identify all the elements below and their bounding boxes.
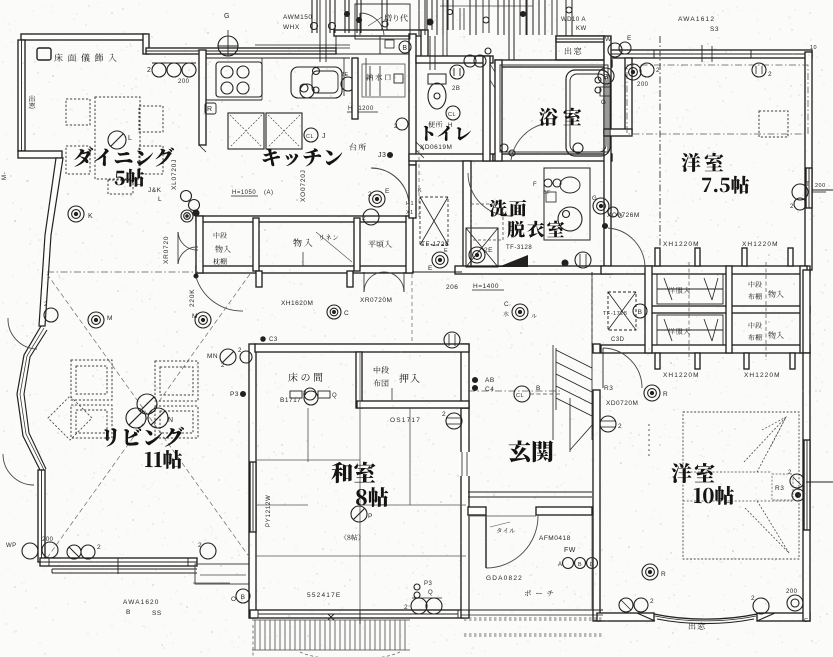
label 10jo	[694, 486, 734, 505]
wall kitchen-dining divider	[199, 50, 206, 145]
svg-text:XD0619M: XD0619M	[420, 144, 452, 151]
wall bath north	[495, 60, 612, 67]
porch outline	[461, 609, 603, 611]
svg-text:B: B	[578, 562, 582, 568]
closet block verticals	[645, 266, 652, 353]
bed7 small dashed box	[759, 111, 788, 137]
bath door arc	[511, 123, 548, 160]
svg-text:200: 200	[815, 183, 826, 189]
svg-text:R3: R3	[604, 385, 613, 392]
engawa deck	[252, 620, 410, 650]
wall utility north	[334, 30, 424, 36]
table circles living	[137, 394, 157, 414]
wall living south window	[40, 558, 197, 566]
front door leaf	[485, 515, 487, 568]
svg-text:2: 2	[442, 411, 446, 418]
marker B bath wall	[598, 68, 614, 84]
label tairu	[497, 528, 515, 533]
svg-text:C: C	[504, 301, 509, 308]
svg-text:R3: R3	[775, 485, 784, 492]
washroom dashed box	[471, 204, 503, 240]
label 11jo	[145, 450, 182, 469]
closet A doors	[178, 232, 198, 250]
label toilet	[424, 126, 471, 141]
svg-text:P3: P3	[230, 391, 239, 398]
svg-text:2: 2	[147, 67, 151, 74]
tatami lines	[307, 408, 309, 462]
window dining west	[18, 40, 25, 151]
svg-text:R: R	[661, 571, 666, 578]
svg-text:G: G	[618, 214, 623, 220]
svg-text:K: K	[88, 213, 93, 220]
living fixtures row	[44, 308, 58, 322]
wall west mid	[39, 158, 63, 326]
svg-text:WHX: WHX	[283, 24, 300, 31]
genkan fixtures AB C4	[473, 378, 478, 383]
svg-text:2: 2	[768, 71, 772, 78]
closet block top	[601, 266, 810, 274]
wall bed10 west	[593, 344, 600, 353]
wall bed10 south	[597, 613, 654, 621]
svg-text:H=1050: H=1050	[232, 190, 256, 196]
label demado bath	[565, 47, 581, 54]
triangle mat	[498, 255, 528, 267]
wall washroom west	[463, 161, 471, 272]
svg-text:Q: Q	[332, 393, 337, 399]
washroom door arc	[468, 173, 511, 216]
svg-text:2: 2	[751, 595, 755, 602]
svg-text:552417E: 552417E	[307, 592, 341, 599]
svg-text:2: 2	[303, 391, 307, 397]
svg-text:B: B	[603, 74, 608, 81]
label benjo	[428, 121, 442, 128]
svg-text:2E: 2E	[341, 72, 349, 78]
label bath	[539, 108, 581, 126]
wall outer east upper	[805, 52, 812, 270]
right edge fixture 200	[792, 184, 808, 200]
fixtures ABD porch	[563, 558, 574, 569]
svg-text:CL: CL	[516, 393, 524, 399]
dining-living door arc	[196, 277, 243, 311]
label closetA	[214, 232, 227, 238]
svg-text:E: E	[385, 188, 390, 195]
svg-text:AWA1612: AWA1612	[678, 16, 715, 23]
hall shaft box	[420, 197, 448, 245]
label demado bed10	[689, 622, 705, 629]
label tokonoma	[288, 373, 322, 382]
toilet duct hatch	[416, 150, 424, 158]
toilet window fixture	[464, 55, 476, 67]
stair diagonals	[556, 350, 592, 368]
label oshiire	[374, 366, 389, 373]
kitchen counter edge	[206, 99, 262, 101]
dashed diamond rug	[48, 396, 92, 440]
katteguchi step rect	[355, 4, 410, 39]
fixture CL toilet	[446, 106, 460, 120]
svg-text:2: 2	[656, 68, 660, 74]
wall genkan west	[461, 408, 469, 618]
svg-text:GDA0822: GDA0822	[486, 575, 523, 582]
label genkan	[509, 440, 553, 462]
front door arc	[486, 515, 538, 568]
svg-text:XH1220M: XH1220M	[663, 241, 700, 248]
closet block bottom	[601, 345, 810, 353]
svg-text:P3: P3	[424, 581, 433, 587]
wall bath west	[495, 60, 502, 161]
label daidokoro	[350, 143, 367, 150]
svg-text:AB: AB	[485, 377, 495, 384]
svg-text:P: P	[368, 513, 373, 520]
svg-text:206: 206	[446, 284, 458, 291]
svg-text:XD0720M: XD0720M	[606, 400, 638, 407]
fixture P washitsu	[351, 506, 367, 522]
svg-text:2: 2	[362, 215, 366, 222]
label senmen	[489, 200, 526, 217]
ceiling dashdot genkan	[468, 390, 560, 392]
bed7 door arc	[608, 228, 645, 268]
wall bed7 west upper	[625, 58, 632, 132]
hall dashed line	[418, 150, 420, 218]
wall bath south	[493, 154, 612, 161]
svg-text:C3: C3	[269, 337, 278, 343]
toilet door arc	[371, 168, 409, 206]
label 8jo	[356, 487, 388, 507]
svg-text:2: 2	[368, 191, 372, 198]
terrace edge below living	[52, 568, 197, 570]
label bed7	[682, 153, 724, 172]
svg-text:2B: 2B	[452, 86, 460, 92]
kitchen island boxes	[228, 113, 264, 149]
svg-text:KW: KW	[576, 26, 587, 32]
terrace step	[195, 564, 250, 584]
closet block mid	[649, 306, 810, 313]
right arrow bed7	[812, 189, 833, 191]
genkan entrance wall	[468, 507, 486, 515]
svg-text:OS1717: OS1717	[390, 417, 421, 424]
label 7.5jo	[702, 176, 749, 194]
stair area walls	[552, 345, 554, 440]
corridor lines	[412, 271, 462, 273]
label porch	[525, 590, 553, 597]
closet C doors	[364, 272, 384, 292]
svg-text:10: 10	[810, 45, 817, 51]
wall outer east mid	[803, 270, 810, 353]
bed dashed	[683, 412, 799, 559]
wall oshiire east	[461, 344, 469, 408]
washing machine	[466, 228, 498, 267]
svg-text:AFM0418: AFM0418	[539, 535, 571, 542]
bay side walls bed10	[637, 613, 655, 621]
storage label box NW	[37, 48, 51, 60]
sofa dashed right	[155, 361, 198, 401]
label hiraire	[368, 240, 391, 247]
label kitchen	[263, 148, 343, 166]
svg-text:FW: FW	[564, 547, 576, 554]
label bed10	[672, 463, 715, 483]
washroom counter	[544, 168, 590, 240]
kitchen counter lines	[206, 57, 350, 59]
svg-text:E: E	[444, 248, 448, 254]
fixture K dining	[68, 206, 84, 222]
toilet fixture 11	[450, 65, 464, 79]
bed7 wall tick	[750, 50, 752, 58]
svg-text:2: 2	[394, 124, 398, 130]
svg-text:2: 2	[618, 423, 622, 430]
fixture C hall	[327, 305, 341, 319]
svg-text:XH1220M: XH1220M	[663, 372, 700, 379]
closet right row2 labels	[749, 322, 762, 328]
fixture 2 left	[600, 416, 616, 432]
door arc west lower	[3, 454, 34, 485]
bed10 door arc	[603, 348, 642, 388]
svg-text:H=1400: H=1400	[473, 283, 499, 290]
pipe valve dots	[311, 23, 318, 30]
svg-text:M-: M-	[2, 171, 8, 180]
svg-text:2: 2	[650, 598, 654, 605]
bed7 G fixtures	[593, 198, 609, 214]
svg-text:R: R	[207, 106, 213, 113]
bay window bed10	[654, 614, 757, 619]
bottom wall fixtures	[22, 543, 38, 559]
svg-text:X1: X1	[406, 210, 414, 216]
door arc west upper	[8, 318, 37, 349]
wall toilet east	[483, 56, 490, 161]
svg-text:WP: WP	[6, 543, 17, 549]
tokonoma symbol	[290, 391, 302, 398]
wall toilet south	[409, 154, 493, 161]
svg-text:200: 200	[178, 79, 190, 85]
svg-text:(A): (A)	[264, 190, 274, 196]
svg-text:AWM150: AWM150	[283, 14, 313, 21]
engawa x mark	[328, 614, 334, 620]
svg-text:XO0726M: XO0726M	[607, 212, 640, 219]
wall outer east lower	[803, 353, 810, 621]
sink block	[291, 67, 342, 98]
svg-text:TF-3128: TF-3128	[506, 245, 532, 251]
closet center dashlines	[688, 262, 690, 360]
fixture washitsu on wall	[444, 332, 460, 348]
genkan entry sidelines	[468, 515, 470, 610]
svg-text:2: 2	[404, 604, 408, 611]
washitsu engawa dashed arc	[300, 652, 400, 657]
svg-text:H1: H1	[406, 201, 414, 207]
svg-text:XH1220M: XH1220M	[742, 241, 779, 248]
svg-text:E: E	[428, 265, 433, 272]
washitsu south ticks	[257, 610, 259, 618]
closet row top wall	[196, 216, 412, 222]
bath fixtures W E	[608, 43, 622, 57]
fixture 2E kitchen	[369, 191, 385, 207]
svg-text:G: G	[601, 100, 606, 106]
svg-text:XR0720: XR0720	[163, 236, 170, 264]
porch steps	[464, 617, 602, 619]
label living	[104, 427, 184, 447]
svg-text:2: 2	[198, 542, 202, 549]
svg-text:XR0720M: XR0720M	[360, 297, 392, 304]
svg-text:C4: C4	[485, 386, 494, 393]
svg-text:B: B	[638, 309, 643, 316]
genkan upper dash	[411, 274, 413, 344]
svg-text:XH1620M: XH1620M	[281, 300, 313, 307]
wall bath east	[604, 36, 611, 132]
pipes into bath	[508, 0, 510, 60]
living fixtures bottom	[95, 388, 97, 390]
closet hanger row1	[657, 274, 723, 304]
label yukashita	[54, 53, 116, 61]
closet right row1 labels	[749, 281, 762, 287]
wall katte divider	[352, 58, 358, 119]
bed10 south ticks	[653, 613, 655, 621]
shaft TF-1728	[608, 292, 636, 330]
wall bed7 north	[609, 50, 812, 58]
svg-text:220K: 220K	[189, 289, 196, 307]
wall utility step east	[421, 30, 428, 61]
genkan step lines	[469, 435, 560, 437]
wall washitsu south	[250, 610, 466, 618]
fixture near wall dining2	[363, 209, 379, 225]
svg-text:G: G	[592, 196, 597, 202]
wall circles north kitchen	[152, 63, 166, 77]
fixture CL J kitchen	[304, 128, 318, 142]
svg-text:N: N	[168, 417, 174, 424]
svg-text:CL: CL	[306, 134, 314, 140]
bed10 bottom fixtures	[619, 598, 633, 612]
closet row verticals	[196, 216, 203, 273]
wall washroom south	[455, 266, 612, 274]
svg-text:TF-1728: TF-1728	[603, 311, 627, 317]
svg-text:SS: SS	[152, 610, 162, 617]
svg-text:2E: 2E	[484, 247, 493, 254]
closet door stubs	[256, 271, 262, 287]
bath taps	[595, 77, 601, 83]
wall bay bottom west	[18, 151, 62, 158]
living window ticks	[48, 558, 50, 566]
closet stubs	[655, 248, 660, 266]
wall washroom east	[604, 132, 611, 272]
label 5jo	[115, 169, 145, 187]
svg-text:BF: BF	[543, 190, 551, 196]
svg-text:K: K	[418, 188, 422, 194]
wall washitsu west	[249, 344, 256, 618]
svg-text:E: E	[627, 35, 632, 42]
bed7 fixtures west	[625, 64, 641, 80]
utility inner lines	[335, 36, 337, 54]
wall hall west (below toilet)	[409, 165, 416, 218]
fixture 2E wash	[469, 247, 485, 263]
svg-text:2: 2	[238, 348, 242, 354]
katte box	[362, 64, 405, 97]
svg-text:W: W	[605, 36, 612, 43]
svg-text:2: 2	[788, 470, 792, 476]
label linen	[320, 234, 339, 240]
washroom SE fixtures	[575, 252, 591, 268]
svg-text:2: 2	[97, 544, 101, 551]
pipes down to toilet	[429, 36, 431, 70]
fixture CL genkan	[514, 386, 530, 402]
svg-text:M: M	[192, 313, 198, 320]
svg-text:O: O	[231, 596, 237, 603]
katte small rect	[394, 74, 403, 83]
wall washitsu north	[255, 344, 469, 352]
bay window bath top	[556, 36, 604, 60]
svg-text:J&K: J&K	[148, 187, 162, 194]
svg-text:G: G	[224, 13, 230, 20]
svg-text:2: 2	[221, 363, 225, 369]
marker R box	[205, 103, 216, 114]
svg-text:J: J	[322, 133, 326, 140]
svg-text:C3D: C3D	[611, 337, 625, 343]
svg-text:200: 200	[786, 589, 798, 595]
pipe pairs top	[418, 0, 420, 35]
wall kitchen north	[146, 48, 336, 54]
label 8jo small	[345, 534, 361, 541]
fixture R top	[644, 385, 660, 401]
stove block	[216, 62, 262, 97]
closet hanger row2	[657, 315, 723, 345]
svg-text:XO0720J: XO0720J	[300, 169, 307, 202]
svg-text:B1717: B1717	[280, 397, 301, 404]
fixture C mizu	[512, 304, 528, 320]
kitchen wall ticks	[199, 145, 206, 152]
sofa dashed left	[71, 360, 112, 400]
bath inner wall lines	[500, 65, 608, 152]
overhang dashdot vertical	[659, 36, 661, 266]
svg-text:L: L	[128, 135, 132, 142]
closet row bottom wall	[196, 266, 412, 273]
kitchen extra circles	[300, 84, 308, 92]
wall bed7 jog	[604, 129, 632, 136]
label monoiri B	[293, 238, 312, 246]
fixture stack dining SE	[181, 191, 192, 202]
svg-text:L: L	[158, 196, 162, 203]
svg-text:WD10 A: WD10 A	[561, 17, 586, 23]
svg-text:C: C	[804, 618, 808, 624]
wall oshiire bottom	[357, 401, 469, 408]
pipes top-left of utility	[311, 0, 313, 33]
bath tub	[566, 70, 610, 156]
svg-text:MN: MN	[207, 353, 218, 360]
label datsuiishitsu	[507, 221, 564, 238]
wall toilet north	[416, 56, 493, 63]
toilet bowl	[428, 83, 446, 109]
svg-text:200: 200	[637, 82, 649, 88]
washroom fixtures BF	[544, 179, 552, 187]
living diagonals	[47, 274, 250, 558]
svg-text:M: M	[107, 315, 113, 322]
svg-text:AWA1620: AWA1620	[123, 599, 159, 606]
label dining	[74, 147, 174, 166]
wall dining north	[21, 34, 146, 40]
label demado west	[29, 95, 35, 108]
bed7 ceiling dashdot	[627, 65, 808, 134]
wall step NW	[143, 34, 149, 54]
fixture R bottom	[642, 564, 658, 580]
svg-text:J3: J3	[378, 152, 386, 159]
wall west lower	[38, 470, 45, 562]
marker B O bottom	[236, 589, 250, 603]
ceiling dashdot living	[47, 271, 198, 273]
dining light L	[108, 131, 126, 149]
pipes above bath bay	[565, 0, 567, 36]
svg-text:2: 2	[790, 204, 794, 210]
wall tokonoma divider	[356, 352, 362, 408]
svg-text:PY1212W: PY1212W	[266, 494, 272, 527]
svg-text:T: T	[806, 182, 810, 188]
svg-text:TF-1728: TF-1728	[421, 241, 449, 248]
svg-text:CL: CL	[448, 112, 456, 118]
dining table set dashed	[66, 99, 90, 125]
genkan agari-kamachi	[468, 491, 592, 493]
